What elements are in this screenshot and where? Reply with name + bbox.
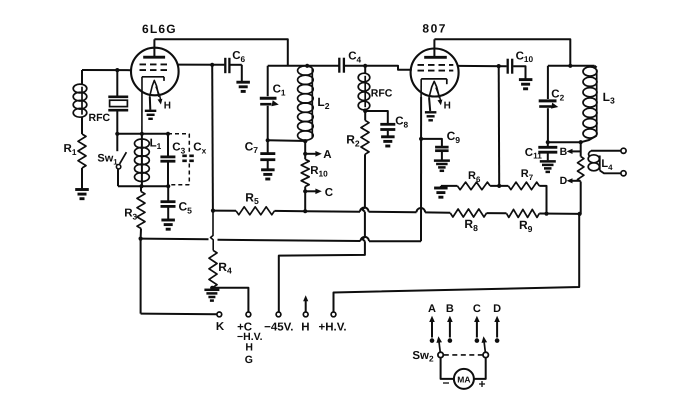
svg-text:+H.V.: +H.V.: [318, 321, 346, 333]
resistor R4: [209, 250, 232, 288]
capacitor Cx dashed: [168, 134, 207, 185]
wire C4 left: [337, 65, 340, 67]
svg-text:807: 807: [422, 22, 447, 36]
ground C6: [236, 82, 250, 91]
arrow tap D: [560, 175, 581, 187]
node R5 screen junction: [211, 209, 215, 213]
svg-text:MA: MA: [457, 374, 470, 384]
wire D node stub: [580, 182, 582, 214]
wire R1 to ground: [81, 168, 83, 189]
tube 807 envelope: [411, 49, 459, 97]
node C2 bottom junction: [546, 140, 550, 144]
resistor R3: [124, 186, 145, 239]
resistor R5: [213, 190, 305, 215]
node L2 top junction: [305, 64, 309, 68]
arrow meter point B: [446, 303, 454, 338]
resistor R2: [346, 111, 369, 154]
switch Sw1: [97, 134, 126, 169]
ground R6 left: [434, 188, 448, 197]
capacitor C5: [161, 186, 193, 219]
wire screen dropping line: [211, 65, 214, 251]
resistor R8: [450, 209, 486, 233]
wire C4 to 807 grid: [345, 66, 411, 70]
wire +HV line: [334, 214, 580, 312]
wire RFC1 to R1: [81, 117, 83, 134]
tube 807 filament: [429, 81, 451, 111]
svg-text:H: H: [164, 100, 171, 111]
ground R4: [204, 290, 219, 301]
tube 6L6G cathode: [142, 77, 164, 134]
svg-text:B: B: [560, 146, 568, 158]
arrow meter point D: [493, 303, 501, 338]
node C8 junction: [363, 109, 367, 113]
capacitor C10: [508, 50, 534, 78]
ground C11: [540, 161, 556, 172]
arrow tap C: [305, 187, 333, 199]
wire K drop: [141, 239, 217, 315]
switch Sw2 pole right: [483, 352, 488, 357]
terminal +H.V.: [318, 312, 346, 333]
svg-text:−45V.: −45V.: [264, 321, 293, 333]
node crystal-cathode junction: [115, 132, 119, 136]
wire R8 R9: [487, 212, 507, 214]
inductor L1: [135, 134, 162, 186]
label 6L6G: [142, 22, 177, 36]
node L1 bottom junction: [139, 184, 143, 188]
arrow H heater: [303, 295, 308, 311]
inductor RFC1: [73, 84, 110, 124]
wire 807 grid stub: [410, 69, 413, 71]
node plate2 junction: [568, 64, 572, 68]
switch Sw2 pole left: [438, 352, 443, 357]
ground C7: [261, 170, 275, 179]
svg-text:H: H: [245, 342, 253, 354]
capacitor C3: [160, 134, 185, 186]
node C1 bottom junction: [266, 138, 270, 142]
wire screen2 drop: [498, 66, 501, 186]
node R10 bottom junction: [303, 209, 307, 213]
meter MA: [454, 369, 474, 389]
resistor R7: [508, 168, 539, 190]
tube 807 plate: [424, 39, 447, 57]
wire tank top line: [268, 65, 339, 67]
wire meter left: [441, 358, 454, 379]
wire R5 line to R8: [305, 207, 450, 212]
wire 6L6G plate top line: [154, 39, 287, 66]
tube 6L6G grids: [140, 64, 171, 70]
ground C8: [381, 137, 395, 146]
tube 6L6G filament: [150, 80, 171, 111]
capacitor C11: [525, 142, 558, 160]
inductor L4: [588, 151, 621, 174]
wire R7 corner: [539, 186, 546, 214]
wire tank2 top line: [548, 65, 595, 67]
wire RFC1 branch corner: [81, 70, 83, 84]
node screen2 divider junction: [497, 184, 501, 188]
label 807: [422, 22, 447, 36]
svg-text:C: C: [473, 303, 481, 315]
wire R6 left stub: [441, 186, 458, 188]
node cathode lead junction: [140, 132, 144, 136]
switch Sw2 arm right: [482, 336, 488, 352]
resistor R10: [301, 142, 328, 212]
wire 807 plate top line: [434, 39, 570, 66]
node meter point C: [475, 338, 480, 343]
node cathode C9 junction: [419, 137, 423, 141]
capacitor C6: [225, 50, 245, 81]
wire 6L6G screen line: [178, 64, 225, 66]
label Sw2: [412, 350, 434, 364]
switch Sw2 gang link: [444, 354, 483, 356]
svg-text:B: B: [446, 303, 454, 315]
node L3 bottom junction: [579, 140, 583, 144]
node bus R3 junction: [139, 237, 143, 241]
label H under C: [245, 342, 253, 354]
wire R4 to +C: [212, 288, 248, 312]
svg-text:−: −: [442, 376, 449, 390]
wire R2 to -45V: [279, 154, 365, 312]
arrow tap B: [560, 146, 581, 158]
wire Sw1 to tank bottom: [117, 169, 119, 186]
terminal antenna top: [621, 148, 626, 153]
svg-text:G: G: [245, 354, 253, 366]
node R7 bottom junction: [544, 212, 548, 216]
capacitor C7: [245, 139, 276, 169]
svg-text:K: K: [216, 321, 225, 333]
ground 807 filament: [425, 112, 437, 120]
svg-text:D: D: [560, 175, 568, 187]
tube 6L6G plate: [143, 39, 165, 57]
wire tank bottom line: [268, 139, 308, 142]
wire cathode bus: [141, 237, 421, 241]
capacitor C2 variable: [539, 66, 565, 142]
node C3 bottom junction: [166, 184, 170, 188]
node screen junction: [210, 63, 214, 67]
terminal +C: [237, 312, 252, 333]
ground C10: [519, 80, 533, 89]
node meter point D: [495, 338, 500, 343]
svg-text:+: +: [478, 377, 485, 391]
inductor L2: [298, 66, 330, 140]
wire meter right: [474, 358, 486, 379]
svg-text:D: D: [493, 303, 501, 315]
node tap C: [303, 189, 307, 193]
node HV bus junction: [578, 212, 582, 216]
resistor R1: [64, 134, 87, 168]
resistor R9: [507, 209, 540, 234]
wire 807 cathode drop: [420, 97, 422, 241]
node RFC2 top junction: [363, 64, 367, 68]
node screen2 junction: [497, 64, 501, 68]
capacitor C9: [421, 129, 460, 160]
switch Sw2 arm left: [436, 336, 442, 352]
wire 807 screen line: [458, 65, 506, 67]
ground R1: [75, 190, 89, 199]
node C3 top junction: [166, 132, 170, 136]
wire grid line 6L6G: [82, 69, 132, 71]
terminal K: [216, 312, 225, 333]
svg-text:6L6G: 6L6G: [142, 22, 177, 36]
ground C9: [434, 161, 450, 171]
node L2 bottom junction: [303, 139, 307, 143]
terminal antenna bottom: [621, 171, 626, 176]
tube 6L6G envelope: [131, 48, 179, 96]
svg-text:RFC: RFC: [89, 112, 111, 124]
ground C5: [161, 220, 175, 229]
tube 807 grids: [418, 65, 454, 71]
arrow meter point A: [428, 303, 436, 338]
tube 807 cathode: [421, 79, 447, 97]
ground 6L6G filament: [145, 111, 157, 119]
wire C8 branch: [365, 111, 388, 123]
inductor L3: [581, 66, 615, 142]
node R4 bottom junction: [210, 286, 214, 290]
node grid junction: [115, 68, 119, 72]
label plus: [478, 377, 485, 391]
resistor meter shunt: [578, 157, 584, 182]
terminal -45V: [264, 312, 293, 333]
wire B node stub: [580, 142, 582, 156]
arrow meter point C: [473, 303, 481, 338]
capacitor C8: [380, 116, 408, 136]
label minus: [442, 376, 449, 390]
svg-text:A: A: [323, 149, 331, 161]
resistor R6: [457, 170, 490, 190]
svg-text:RFC: RFC: [371, 88, 393, 100]
crystal X1: [108, 70, 128, 134]
wire cathode tank top line: [117, 133, 168, 135]
inductor RFC2: [358, 66, 393, 111]
wire tank2 bottom line: [548, 141, 581, 143]
svg-text:H: H: [301, 321, 309, 333]
svg-text:A: A: [428, 303, 436, 315]
capacitor C1 variable: [260, 66, 286, 140]
wire R9 to HV node: [539, 213, 580, 215]
label -H.V.: [237, 331, 263, 343]
svg-text:C: C: [325, 187, 333, 199]
capacitor C4: [339, 51, 361, 73]
arrow tap A: [305, 149, 331, 161]
label G under C: [245, 354, 253, 366]
wire tank bottom line: [118, 185, 168, 187]
svg-text:H: H: [444, 101, 451, 112]
node meter point B: [448, 338, 453, 343]
terminal H: [301, 312, 309, 333]
node tap A: [303, 152, 307, 156]
node meter point A: [430, 338, 435, 343]
wire R6 R7: [490, 185, 508, 187]
